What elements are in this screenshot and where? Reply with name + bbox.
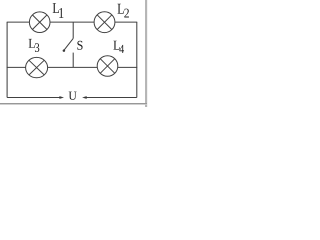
label L1 sub — [59, 8, 63, 18]
switch S blade — [64, 38, 73, 50]
lamp L4 — [97, 56, 118, 77]
frame border bottom — [0, 103, 147, 105]
label L4 letter — [113, 41, 119, 50]
frame border right — [145, 0, 147, 107]
label L3 sub — [35, 43, 39, 52]
wire: left rail — [6, 22, 8, 97]
label L1 letter — [53, 3, 59, 13]
label L3 letter — [29, 39, 35, 48]
lamp L3 — [26, 57, 48, 77]
wire: bottom-left segment — [7, 97, 60, 99]
switch S pivot dot — [63, 49, 66, 52]
background — [0, 0, 149, 107]
arrowhead pointing left (right of U) — [82, 96, 87, 99]
label S — [77, 41, 82, 50]
wire: switch drop upper — [72, 22, 74, 38]
label L4 sub — [119, 45, 124, 53]
wire: right rail — [136, 22, 138, 97]
label L2 letter — [118, 4, 124, 14]
wire: middle conductor — [7, 66, 138, 68]
wire: bottom-right segment — [86, 97, 137, 99]
wire: switch drop lower — [72, 53, 74, 68]
label U — [69, 92, 77, 100]
wire: top conductor — [7, 21, 138, 23]
label L2 sub — [124, 9, 129, 18]
arrowhead pointing right (left of U) — [59, 96, 64, 99]
lamp L1 — [29, 12, 50, 33]
lamp L2 — [94, 12, 115, 33]
